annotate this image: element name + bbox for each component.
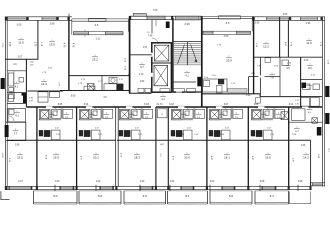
wc pan u250 (265, 111, 269, 116)
svg-text:23.2: 23.2 (92, 57, 98, 61)
svg-text:5.0: 5.0 (229, 194, 234, 198)
window top w3 (267, 17, 290, 21)
svg-text:3.05: 3.05 (304, 60, 309, 62)
wall x280 low (279, 57, 281, 96)
hall label u170 (196, 113, 202, 119)
pier top-right corner (321, 17, 323, 21)
svg-text:1.92: 1.92 (96, 181, 101, 183)
svg-text:2.78: 2.78 (290, 42, 292, 47)
svg-text:4.77: 4.77 (172, 156, 174, 161)
balcony 5.0 (79, 191, 121, 204)
window end tick x275.2 (275, 186, 276, 190)
svg-text:1.90: 1.90 (212, 75, 217, 77)
svg-text:1.96: 1.96 (217, 45, 222, 47)
svg-text:6.05: 6.05 (58, 104, 63, 106)
wall low right x310 (310, 140, 312, 186)
svg-text:1.54: 1.54 (270, 134, 275, 136)
stove B xbox (88, 84, 95, 91)
svg-text:1.78: 1.78 (78, 83, 83, 85)
svg-text:18.3: 18.3 (134, 155, 140, 159)
lift lobby label (160, 95, 166, 101)
door opening corridor x86 (86, 106, 93, 108)
room 12.3 hall L (41, 80, 47, 86)
corridor top wall A (28, 90, 64, 92)
h-wall y140 b (117, 139, 248, 141)
pier stair right (201, 16, 203, 20)
door opening corridor x46 (46, 106, 53, 108)
top wall over stair (173, 16, 203, 20)
loggia R right inner wall (251, 17, 253, 32)
window end tick x73.2 (73, 186, 74, 190)
core left wall (129, 16, 131, 93)
wall x279 upper (279, 17, 281, 57)
room 18.3 bottom (134, 153, 140, 159)
balcony door mark x140 (139, 185, 141, 191)
riser block right 2 (325, 113, 329, 124)
riser block left 2 (5, 125, 9, 137)
lobby box 5 (187, 89, 196, 93)
svg-text:6.01: 6.01 (289, 104, 294, 106)
svg-text:2.07: 2.07 (225, 127, 230, 129)
vent shaft u38 (41, 110, 49, 118)
room 7.8 (269, 73, 275, 79)
room label 7.2 u38 (49, 113, 55, 119)
kitchen low u38 (39, 130, 43, 136)
wall rm11.5R left (287, 20, 289, 57)
svg-text:6.7: 6.7 (140, 65, 144, 69)
h-wall y122 right (289, 121, 323, 123)
bottom wall right step (311, 183, 325, 190)
hall box u208 (233, 109, 243, 118)
wc u250 (264, 109, 274, 118)
svg-text:2.10: 2.10 (139, 74, 144, 76)
party wall low 8 (288, 107, 290, 186)
door arc unit1 (52, 107, 58, 113)
svg-text:7.96: 7.96 (257, 66, 262, 68)
balcony 4.9 (124, 191, 166, 204)
svg-text:1.87: 1.87 (29, 101, 34, 103)
wc u170 (184, 109, 194, 118)
room 7.7 (13, 129, 19, 135)
stair lobby right wall (201, 94, 203, 107)
room 12.2 (263, 42, 269, 48)
svg-text:5.0: 5.0 (53, 194, 58, 198)
svg-text:4.68: 4.68 (45, 155, 47, 160)
wall right of loggia R (253, 16, 255, 93)
bottom exterior wall (5, 186, 312, 189)
door arc unit3 (132, 107, 138, 113)
hall label u78 (104, 113, 110, 119)
svg-text:4.5: 4.5 (308, 112, 312, 114)
svg-text:1.78: 1.78 (42, 72, 47, 74)
room label 7.3 u118 (129, 113, 135, 119)
room 4.5R (307, 108, 313, 114)
svg-text:11.5: 11.5 (306, 41, 312, 45)
loggia L sill win2 (106, 32, 124, 35)
room 13.9 L (49, 40, 55, 46)
svg-text:2.30: 2.30 (180, 134, 185, 136)
svg-text:1.51: 1.51 (143, 47, 148, 49)
door opening corridor x258 (258, 106, 265, 108)
svg-text:5.1: 5.1 (270, 194, 275, 198)
svg-text:7.06: 7.06 (153, 9, 158, 12)
fixture R1 (282, 60, 289, 66)
room label 7.2 u250 (261, 113, 267, 119)
svg-text:4.48: 4.48 (255, 43, 257, 48)
door gap y76.5 (259, 75, 265, 77)
kitchen low u170 (171, 130, 175, 136)
counter strip corridor R (228, 89, 248, 93)
room7.7 bottom wall (6, 140, 26, 142)
wall kitchen B (101, 76, 103, 91)
pier bottom x35.8 (36, 186, 38, 190)
window top w4 (301, 17, 318, 21)
svg-text:6.6: 6.6 (226, 21, 230, 25)
door arc unit5 (222, 107, 228, 113)
corridor top wall D (202, 93, 261, 95)
loggia L opening box (89, 18, 107, 21)
door arc unit6 (264, 107, 270, 113)
elevator divider wall (152, 62, 172, 64)
bath R low (292, 109, 306, 121)
pier bottom x309.5 (310, 186, 312, 190)
room 19.9 bottom (53, 153, 59, 159)
svg-text:6.06: 6.06 (71, 95, 76, 97)
svg-text:2.92: 2.92 (48, 68, 53, 70)
pier bottom x154.8 (155, 186, 157, 190)
svg-text:1.90: 1.90 (82, 107, 86, 109)
loggia R sill win1 (203, 31, 213, 34)
svg-text:12.2: 12.2 (263, 44, 269, 48)
vestibule divider (130, 54, 152, 56)
hall label u208 (234, 113, 240, 119)
svg-text:4.1: 4.1 (185, 74, 189, 77)
svg-text:4.1: 4.1 (15, 114, 19, 117)
hall box u170 (195, 109, 205, 118)
corridor small box R (256, 98, 261, 104)
svg-text:3.53: 3.53 (224, 35, 229, 38)
svg-text:19.9: 19.9 (53, 155, 59, 159)
svg-text:5.1: 5.1 (185, 194, 190, 198)
loggia L outer wall (72, 19, 129, 21)
kitchen low u208 (209, 130, 213, 136)
bath partition thin (13, 71, 15, 93)
h-wall y76.5 R (249, 76, 280, 78)
wc pan u78 (93, 111, 97, 116)
svg-text:18.1: 18.1 (224, 155, 230, 159)
svg-text:17.91: 17.91 (1, 42, 3, 48)
bath bottom u170 (171, 119, 193, 121)
party wall low 5 (167, 107, 169, 186)
svg-text:3.13: 3.13 (96, 37, 101, 40)
loggia L sill win1 (74, 32, 89, 35)
room 23.9 R (226, 56, 232, 62)
balcony door mark x210 (209, 185, 211, 191)
wall x300 (300, 57, 302, 107)
bath box u118 (120, 109, 131, 120)
h-wall y140 a (7, 139, 116, 141)
svg-text:1.90: 1.90 (122, 107, 126, 109)
svg-text:1.87: 1.87 (295, 100, 299, 102)
stair corner duct (197, 77, 201, 87)
stair lower landing wall (173, 81, 196, 83)
room 8.2 (307, 64, 313, 70)
svg-text:7.7: 7.7 (14, 131, 18, 135)
svg-text:1.87: 1.87 (58, 82, 60, 87)
room 4.1 low (14, 111, 20, 117)
svg-text:3.9: 3.9 (103, 97, 107, 99)
svg-text:1.87: 1.87 (29, 64, 34, 66)
hall wall u78 (101, 107, 103, 119)
loggia L left wall (71, 19, 73, 35)
pier bottom x167.2 (167, 186, 169, 190)
balcony 5.0 (210, 191, 252, 204)
stair treads (174, 42, 201, 66)
room label 7.1 u208 (219, 113, 225, 119)
pier bottom x247.2 (247, 186, 249, 190)
vent shaft R (281, 112, 288, 120)
balcony door mark x96 (95, 185, 97, 191)
dark fixture right low (302, 83, 307, 89)
party wall low 6 (206, 107, 208, 186)
window top w1 (8, 17, 27, 21)
svg-text:4.78: 4.78 (72, 43, 74, 48)
pier w3-w4 (289, 17, 291, 21)
pier bottom x115.3 (115, 186, 117, 190)
svg-text:2.31: 2.31 (138, 134, 143, 136)
pier bottom x287.6 (288, 186, 290, 190)
svg-text:20.0: 20.0 (184, 155, 190, 159)
svg-text:2.00: 2.00 (210, 181, 215, 183)
svg-text:14.02: 14.02 (1, 152, 3, 158)
svg-text:4.77: 4.77 (80, 156, 82, 161)
svg-text:14.2: 14.2 (303, 155, 309, 159)
corridor bottom wall left (26, 106, 151, 108)
wc pan u208 (223, 111, 227, 116)
svg-text:2.07: 2.07 (135, 127, 140, 129)
svg-text:БКЛ: БКЛ (160, 144, 164, 146)
dark riser right inner (317, 127, 322, 136)
svg-text:2.78: 2.78 (34, 42, 36, 47)
balcony door mark x260 (259, 185, 261, 191)
party wall low 1 (36, 107, 38, 186)
vent shaft u250 (253, 110, 261, 118)
svg-text:2.75: 2.75 (119, 79, 123, 81)
pier at party wall A (68, 17, 70, 21)
svg-text:7.46: 7.46 (127, 72, 129, 76)
pier right of w2 (57, 17, 59, 21)
door opening corridor x126 (126, 106, 133, 108)
corridor top wall C (129, 92, 152, 94)
bath bottom u250 (251, 119, 273, 121)
hall wall u118 (141, 107, 143, 119)
svg-text:6.07: 6.07 (224, 104, 229, 106)
mid shaft box (158, 109, 168, 118)
bath bottom u208 (209, 119, 231, 121)
svg-text:6.6: 6.6 (95, 23, 99, 27)
loggia L right wall (127, 19, 129, 32)
svg-text:1.54: 1.54 (194, 134, 199, 136)
svg-text:5.0: 5.0 (159, 153, 161, 157)
svg-text:1.82: 1.82 (295, 103, 299, 105)
bottom-left corner stub (1, 191, 10, 199)
room 4.5 (285, 64, 291, 70)
top raised wall hatch (133, 14, 146, 17)
svg-text:2.30: 2.30 (220, 134, 225, 136)
svg-text:4.17: 4.17 (120, 153, 122, 158)
h-wall y140 c (248, 139, 311, 141)
washer L (8, 95, 14, 102)
lobby box 2 (145, 88, 151, 92)
door opening corridor x216 (216, 106, 223, 108)
stair right wall (201, 18, 203, 107)
wc u208 (222, 109, 232, 118)
svg-text:2.78: 2.78 (319, 42, 321, 47)
svg-text:14.3: 14.3 (251, 73, 256, 75)
dim tick loggia L (84, 30, 86, 38)
pier bottom x4.8 (5, 186, 7, 190)
svg-text:2.07: 2.07 (95, 127, 100, 129)
svg-text:Л: Л (161, 114, 163, 116)
party wall low 2 (76, 107, 78, 186)
balcony 5.1 (255, 191, 289, 204)
bath bottom u38 (39, 119, 61, 121)
vestibule wall v (151, 20, 153, 34)
corridor top wall E (260, 96, 322, 98)
svg-text:2.97: 2.97 (18, 181, 23, 183)
toilet L (9, 88, 14, 92)
svg-text:4.10: 4.10 (8, 158, 10, 163)
svg-text:1.82: 1.82 (29, 61, 34, 63)
elevator 2 cab (154, 65, 168, 85)
svg-text:1.5: 1.5 (147, 32, 151, 34)
corridor bottom wall right (156, 106, 322, 108)
elevator shaft outer wall (152, 43, 172, 92)
window end tick x139.5 (140, 186, 141, 190)
stair left wall (172, 18, 174, 92)
kitchen low u78 (79, 130, 83, 136)
svg-text:21.74: 21.74 (157, 103, 164, 106)
corridor top jog (259, 94, 261, 97)
window core front (147, 16, 165, 19)
svg-text:1.90: 1.90 (55, 181, 60, 183)
svg-text:16.6: 16.6 (265, 155, 271, 159)
room 11.5 L (18, 38, 24, 44)
kitchen fixtures B (104, 84, 117, 90)
svg-text:4.9: 4.9 (143, 194, 148, 198)
wc u38 (52, 109, 62, 118)
wall bath top L (7, 70, 26, 72)
svg-text:1.92: 1.92 (170, 181, 175, 183)
stair window (176, 16, 200, 20)
svg-text:23.9: 23.9 (226, 58, 232, 62)
room 18.1 bottom (224, 153, 230, 159)
room 11.5 R (306, 39, 312, 45)
window end tick x112.7 (113, 186, 114, 190)
window bottom b5 (181, 186, 193, 189)
loggia R outer wall (202, 16, 253, 18)
party wall A/B upper (68, 17, 70, 91)
duct core top (166, 22, 170, 29)
door arc left unit entry (9, 116, 14, 121)
svg-text:1.90: 1.90 (140, 181, 145, 183)
svg-text:1.96: 1.96 (301, 145, 306, 147)
bath L2 fixture (9, 110, 14, 115)
window end tick x99.5 (100, 186, 101, 190)
room 6.7 (139, 63, 145, 69)
window end tick x31.2 (31, 186, 32, 190)
stair lobby wall (173, 91, 202, 93)
svg-text:1.8: 1.8 (307, 87, 311, 90)
wc u118 (132, 109, 142, 118)
svg-text:1.82: 1.82 (140, 81, 145, 83)
svg-text:2.07: 2.07 (55, 127, 60, 129)
room 1.7R (294, 127, 300, 133)
window end tick x193.2 (193, 186, 194, 190)
bath box u78 (80, 109, 91, 120)
room 20.2 bottom (93, 153, 99, 159)
window bottom b4 (140, 186, 152, 189)
hall box u250 (275, 109, 285, 118)
pier stair left (171, 16, 173, 20)
room label 7.3 u170 (181, 113, 187, 119)
svg-text:4.1: 4.1 (161, 97, 165, 101)
hall box u38 (63, 109, 73, 118)
svg-text:1.82: 1.82 (29, 98, 34, 100)
svg-text:3.07: 3.07 (18, 57, 23, 59)
kitchen low u250 (251, 130, 255, 136)
vent shaft u170 (173, 110, 181, 118)
h-wall y79 right (301, 79, 323, 81)
pier loggiaR right (253, 17, 255, 21)
kitchen L fixture 1 (9, 94, 15, 99)
svg-text:1.98: 1.98 (287, 63, 292, 65)
room label 7.1 u78 (89, 113, 95, 119)
svg-text:12.3: 12.3 (41, 82, 47, 86)
svg-text:4.48: 4.48 (124, 58, 126, 63)
window end tick x8.5 (9, 186, 10, 190)
svg-text:1.90: 1.90 (174, 107, 178, 109)
bath box u38 (40, 109, 51, 120)
svg-text:12.1: 12.1 (328, 148, 330, 153)
elevator door notch 1 (151, 53, 153, 58)
svg-text:1.90: 1.90 (212, 107, 216, 109)
top wall core section (129, 16, 173, 19)
fixture under y57 (265, 58, 271, 63)
window bottom right step (313, 183, 323, 186)
svg-text:2.96: 2.96 (255, 22, 260, 25)
kitchen low u118 (119, 130, 123, 136)
bottom-right terrace (290, 192, 311, 204)
room 23.2 (92, 55, 98, 61)
bath bottom u78 (79, 119, 101, 121)
room 16.6 bottom (265, 153, 271, 159)
hall wall u170 (193, 107, 195, 119)
elevator door notch 2 (151, 73, 153, 78)
wall small L3 (7, 103, 26, 105)
top exterior wall right section (253, 17, 326, 21)
room 4.1 bath L (14, 82, 20, 88)
pier between w1 w2 (27, 17, 29, 21)
hall wall u38 (61, 107, 63, 119)
svg-text:3.06: 3.06 (17, 23, 22, 26)
wall under rm11.5 (5, 58, 38, 60)
svg-text:2.95: 2.95 (306, 22, 311, 25)
svg-text:3.05: 3.05 (283, 14, 288, 16)
svg-text:1.77: 1.77 (97, 81, 102, 83)
fixture R3 (313, 84, 320, 90)
h-wall y57 right (254, 56, 323, 58)
